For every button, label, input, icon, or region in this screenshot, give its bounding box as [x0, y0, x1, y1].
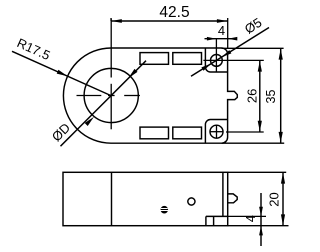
arrow OD upper	[128, 69, 137, 78]
slot 2	[173, 53, 202, 65]
svg-text:4: 4	[244, 215, 258, 222]
leader R17.5 line	[12, 51, 111, 95]
tab bottom-right	[205, 120, 227, 144]
arrow 20 bottom	[281, 214, 285, 225]
side view outline	[63, 172, 228, 225]
screw slot white slit 1	[161, 208, 168, 209]
side view bump	[228, 194, 238, 203]
ext 35 bottom	[222, 142, 285, 144]
arrow 35 bottom	[279, 132, 283, 143]
dimension 4 side line	[260, 193, 262, 246]
arrow 20 top	[281, 173, 285, 184]
dimension 42.5 ext left	[110, 18, 112, 21]
arrow 42.5 left	[111, 19, 122, 23]
screw slot white slit 2	[161, 210, 169, 211]
arrow 42.5 right	[217, 19, 228, 23]
led circle side	[188, 198, 195, 205]
centerline horizontal hole O5 / ext 26 top	[203, 59, 263, 61]
dimension 20 line	[282, 172, 284, 225]
arrow 26 bottom	[258, 121, 262, 132]
slot 3	[140, 127, 169, 139]
svg-text:35: 35	[264, 90, 278, 104]
tab top-right	[205, 48, 227, 72]
screw cross horizontal	[210, 131, 224, 133]
arrow R17.5	[57, 70, 68, 76]
slot 4	[173, 127, 202, 139]
ext 35 top	[222, 47, 284, 49]
svg-text:20: 20	[267, 192, 282, 206]
screw cross vertical	[216, 125, 218, 139]
centerline vertical hole O5	[215, 39, 217, 73]
circle D	[84, 68, 138, 122]
slot 1	[140, 53, 169, 65]
screw circle bottom	[210, 125, 223, 138]
ext 20/4 bottom	[228, 225, 289, 227]
dimension 4 line	[205, 38, 234, 40]
arrow 26 top	[258, 61, 262, 72]
arrow O5 upper	[221, 50, 231, 57]
arrow 4 left	[207, 37, 217, 41]
arrow OD lower	[85, 117, 94, 126]
svg-text:42.5: 42.5	[159, 4, 189, 21]
arrow 4 side bottom	[259, 226, 263, 236]
side view divider	[111, 172, 113, 225]
svg-text:4: 4	[218, 23, 225, 38]
side view slot line	[222, 172, 224, 216]
centerline vertical big circle	[110, 19, 112, 78]
leader O5 line	[191, 28, 269, 77]
arrow 4 side top	[259, 207, 263, 217]
arrow 4 right	[228, 37, 238, 41]
arrow O5 lower	[201, 64, 211, 71]
arrow 35 top	[279, 49, 283, 60]
side view step vertical 2	[213, 216, 215, 225]
side view step vertical 1	[205, 216, 207, 225]
part outline top view	[63, 48, 237, 143]
centerline horizontal big circle	[77, 95, 102, 97]
ext step	[228, 215, 266, 217]
dimension 26 line	[259, 60, 261, 132]
ext 20 top	[228, 171, 287, 173]
svg-text:26: 26	[244, 89, 259, 103]
screw head side	[161, 206, 169, 214]
dimension 42.5 ext right	[227, 18, 229, 48]
dimension 35 line	[280, 48, 282, 143]
ext 26 bottom	[226, 131, 264, 133]
side view step line	[206, 215, 228, 217]
dimension 42.5 line	[111, 20, 228, 22]
hole O5	[211, 55, 223, 67]
leader OD line	[61, 61, 147, 147]
